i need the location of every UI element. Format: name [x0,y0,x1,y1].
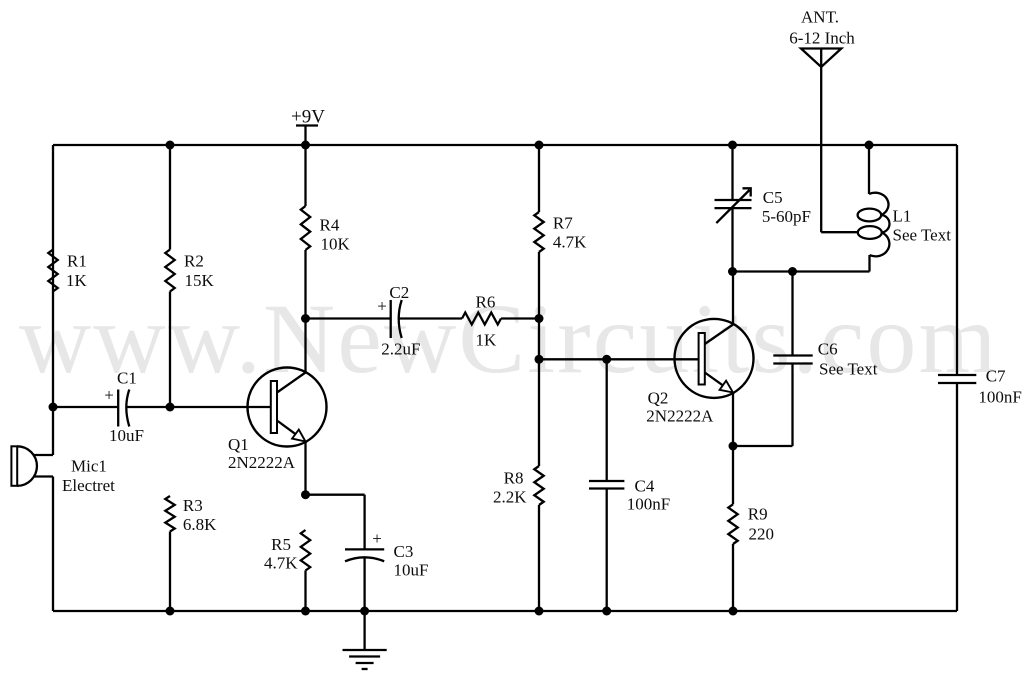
label R3 value [183,496,217,534]
wire right rail upper segment [956,145,958,375]
label R7 value [553,214,587,252]
resistor R6 [462,313,501,325]
node Q1 emitter junction [301,490,310,499]
svg-text:100nF: 100nF [978,388,1021,407]
wire left rail lower segment [52,477,54,612]
wire C4 bottom [606,489,608,612]
wire C3 bottom [363,557,365,611]
label L1 value [893,207,952,245]
node bottom rail x539 [535,607,544,616]
node R6 right junction [535,314,544,323]
transistor Q1 emitter line [277,421,299,437]
resistor R4 [301,206,310,250]
svg-text:10K: 10K [321,235,351,254]
wire R5 bottom [304,571,306,612]
wire bottom ground rail [53,610,957,612]
svg-text:R1: R1 [67,252,87,271]
svg-text:C4: C4 [635,477,655,496]
label C1 plus [104,386,114,405]
wire left rail upper segment [52,145,54,455]
capacitor C5 variable [715,188,752,223]
svg-text:R2: R2 [184,252,204,271]
power +9V label [291,107,325,128]
wire right rail lower segment [956,383,958,611]
label C4 value [627,477,670,514]
svg-text:C1: C1 [117,369,137,388]
capacitor C6 [773,356,812,364]
svg-text:10uF: 10uF [394,561,429,580]
transistor Q1 circle [248,368,327,447]
transistor Q2 emitter line [705,373,727,389]
label Q2 [646,389,714,426]
wire C5 bottom [731,208,733,271]
wire Q1 collector up [304,319,306,373]
transistor Q2 emitter arrow [720,381,733,393]
node top rail x305 [301,141,310,150]
wire R9 top [732,446,734,504]
wire mid x539 [538,319,540,360]
wire C5 top [731,145,733,200]
svg-text:R4: R4 [320,216,340,235]
wire L1 top [868,145,870,194]
ground symbol [343,611,387,669]
wire R3 bottom [169,532,171,612]
svg-text:4.7K: 4.7K [264,554,298,573]
wire C2 to R6 [399,317,462,319]
wire C1 right [126,406,170,408]
label antenna [789,8,855,48]
label R4 value [320,216,351,254]
power +9V terminal bar [296,124,318,126]
label R8 value [493,469,527,507]
wire Q2 base [539,358,699,360]
wire R7 top [538,145,540,212]
svg-text:C7: C7 [986,367,1006,386]
resistor R3 [165,496,174,532]
svg-text:L1: L1 [893,207,912,226]
wire C6 top [791,272,793,356]
label R5 value [264,535,298,573]
wire R8 top [538,359,540,466]
wire Q2 emitter down [732,392,734,446]
label R6 value [476,293,498,350]
svg-text:2N2222A: 2N2222A [228,453,296,472]
svg-text:Electret: Electret [62,476,115,495]
svg-text:10uF: 10uF [109,426,144,445]
wire R8 bottom [538,505,540,611]
transistor Q1 collector line [277,373,306,393]
node bottom rail x170 [166,607,175,616]
node top rail x732 [728,141,737,150]
label C1 value [109,369,144,446]
wire R9 bottom [732,544,734,611]
svg-text:5-60pF: 5-60pF [762,207,811,226]
transistor Q2 base bar [699,333,705,385]
node bottom rail x305 [301,607,310,616]
node ground junction [360,607,369,616]
node Q2 emitter junction [729,442,738,451]
wire C6 bottom wire [733,364,793,447]
capacitor C4 [589,481,624,489]
node bottom rail x733 [729,607,738,616]
node bottom rail x606 [602,607,611,616]
label C2 value [381,283,420,359]
label C7 value [978,367,1021,407]
wire antenna tap [821,231,858,233]
svg-text:R3: R3 [183,496,203,515]
label C3 plus [372,529,382,548]
svg-text:R9: R9 [748,505,768,524]
resistor R1 [48,250,57,292]
node C2 junction [301,314,310,323]
wire top supply rail [53,144,957,146]
wire +9V stem [304,126,306,146]
svg-text:R6: R6 [476,293,496,312]
node C4 branch [602,355,611,364]
watermark [19,283,999,394]
wire Q1 base [170,406,271,408]
svg-text:See Text: See Text [819,360,878,379]
svg-text:C2: C2 [389,283,409,302]
svg-text:2N2222A: 2N2222A [646,407,714,426]
label Mic1 [62,457,115,496]
wire antenna lead [820,49,822,233]
antenna symbol [801,49,841,68]
transistor Q1 emitter arrow [292,430,305,442]
svg-text:1K: 1K [66,271,88,290]
svg-text:Mic1: Mic1 [71,457,107,476]
label C5 value [762,188,811,226]
wire C4 top [606,359,608,481]
svg-text:1K: 1K [476,331,498,350]
svg-text:220: 220 [749,525,775,544]
label R1 value [66,252,88,291]
svg-text:+: + [372,529,382,548]
wire R4 top [304,145,306,206]
wire R2 top [169,145,171,250]
resistor R9 [728,504,737,544]
wire Q2 collector up [732,272,734,325]
label Q1 [228,435,296,472]
svg-text:C5: C5 [763,188,783,207]
node left rail C1 junction [49,403,58,412]
wire R6 right [501,317,539,319]
label R2 value [184,252,215,291]
transistor Q1 base bar [271,381,277,433]
node Q2 base branch [535,355,544,364]
svg-text:4.7K: 4.7K [553,233,587,252]
wire R4 bottom [304,250,306,319]
transistor Q2 collector line [705,325,733,345]
wire Q1 emitter down [304,441,306,494]
label C6 value [818,340,878,379]
svg-text:C3: C3 [394,542,414,561]
wire C2 left [306,317,391,319]
resistor R7 [534,212,543,252]
wire C1 left [53,406,118,408]
svg-text:6-12 Inch: 6-12 Inch [789,29,855,48]
svg-text:+: + [104,386,114,405]
capacitor C2 [391,300,402,338]
node tank C5 [728,267,737,276]
svg-text:6.8K: 6.8K [183,515,217,534]
capacitor C1 [118,390,129,427]
svg-text:100nF: 100nF [627,495,670,514]
svg-text:C6: C6 [818,340,838,359]
svg-text:R8: R8 [504,469,524,488]
label R9 value [748,505,774,544]
label C2 plus [377,297,387,316]
wire C3 top [306,495,365,550]
microphone Mic1 [11,446,53,486]
capacitor C7 [938,375,976,383]
svg-text:+: + [377,297,387,316]
resistor R5 [301,530,310,571]
inductor L1 [858,193,890,272]
node R2 R3 base junction [166,403,175,412]
node top rail x539 [535,141,544,150]
wire R2 bottom [169,292,171,408]
resistor R8 [534,466,543,505]
svg-text:ANT.: ANT. [801,8,839,27]
node tank C6 [788,267,797,276]
node top rail x170 [166,141,175,150]
label C3 value [394,542,429,580]
wire R7 bottom [538,252,540,319]
wire tank bottom [733,270,870,272]
svg-text:2.2uF: 2.2uF [381,340,420,359]
resistor R2 [165,250,174,292]
svg-text:See Text: See Text [893,226,952,245]
svg-text:15K: 15K [185,271,215,290]
svg-text:R5: R5 [271,535,291,554]
svg-text:Q2: Q2 [648,389,669,408]
capacitor C3 [345,549,384,561]
svg-text:Q1: Q1 [228,435,249,454]
svg-text:R7: R7 [553,214,573,233]
svg-text:2.2K: 2.2K [493,488,527,507]
transistor Q2 circle [675,319,754,398]
node top rail x869 [865,141,874,150]
